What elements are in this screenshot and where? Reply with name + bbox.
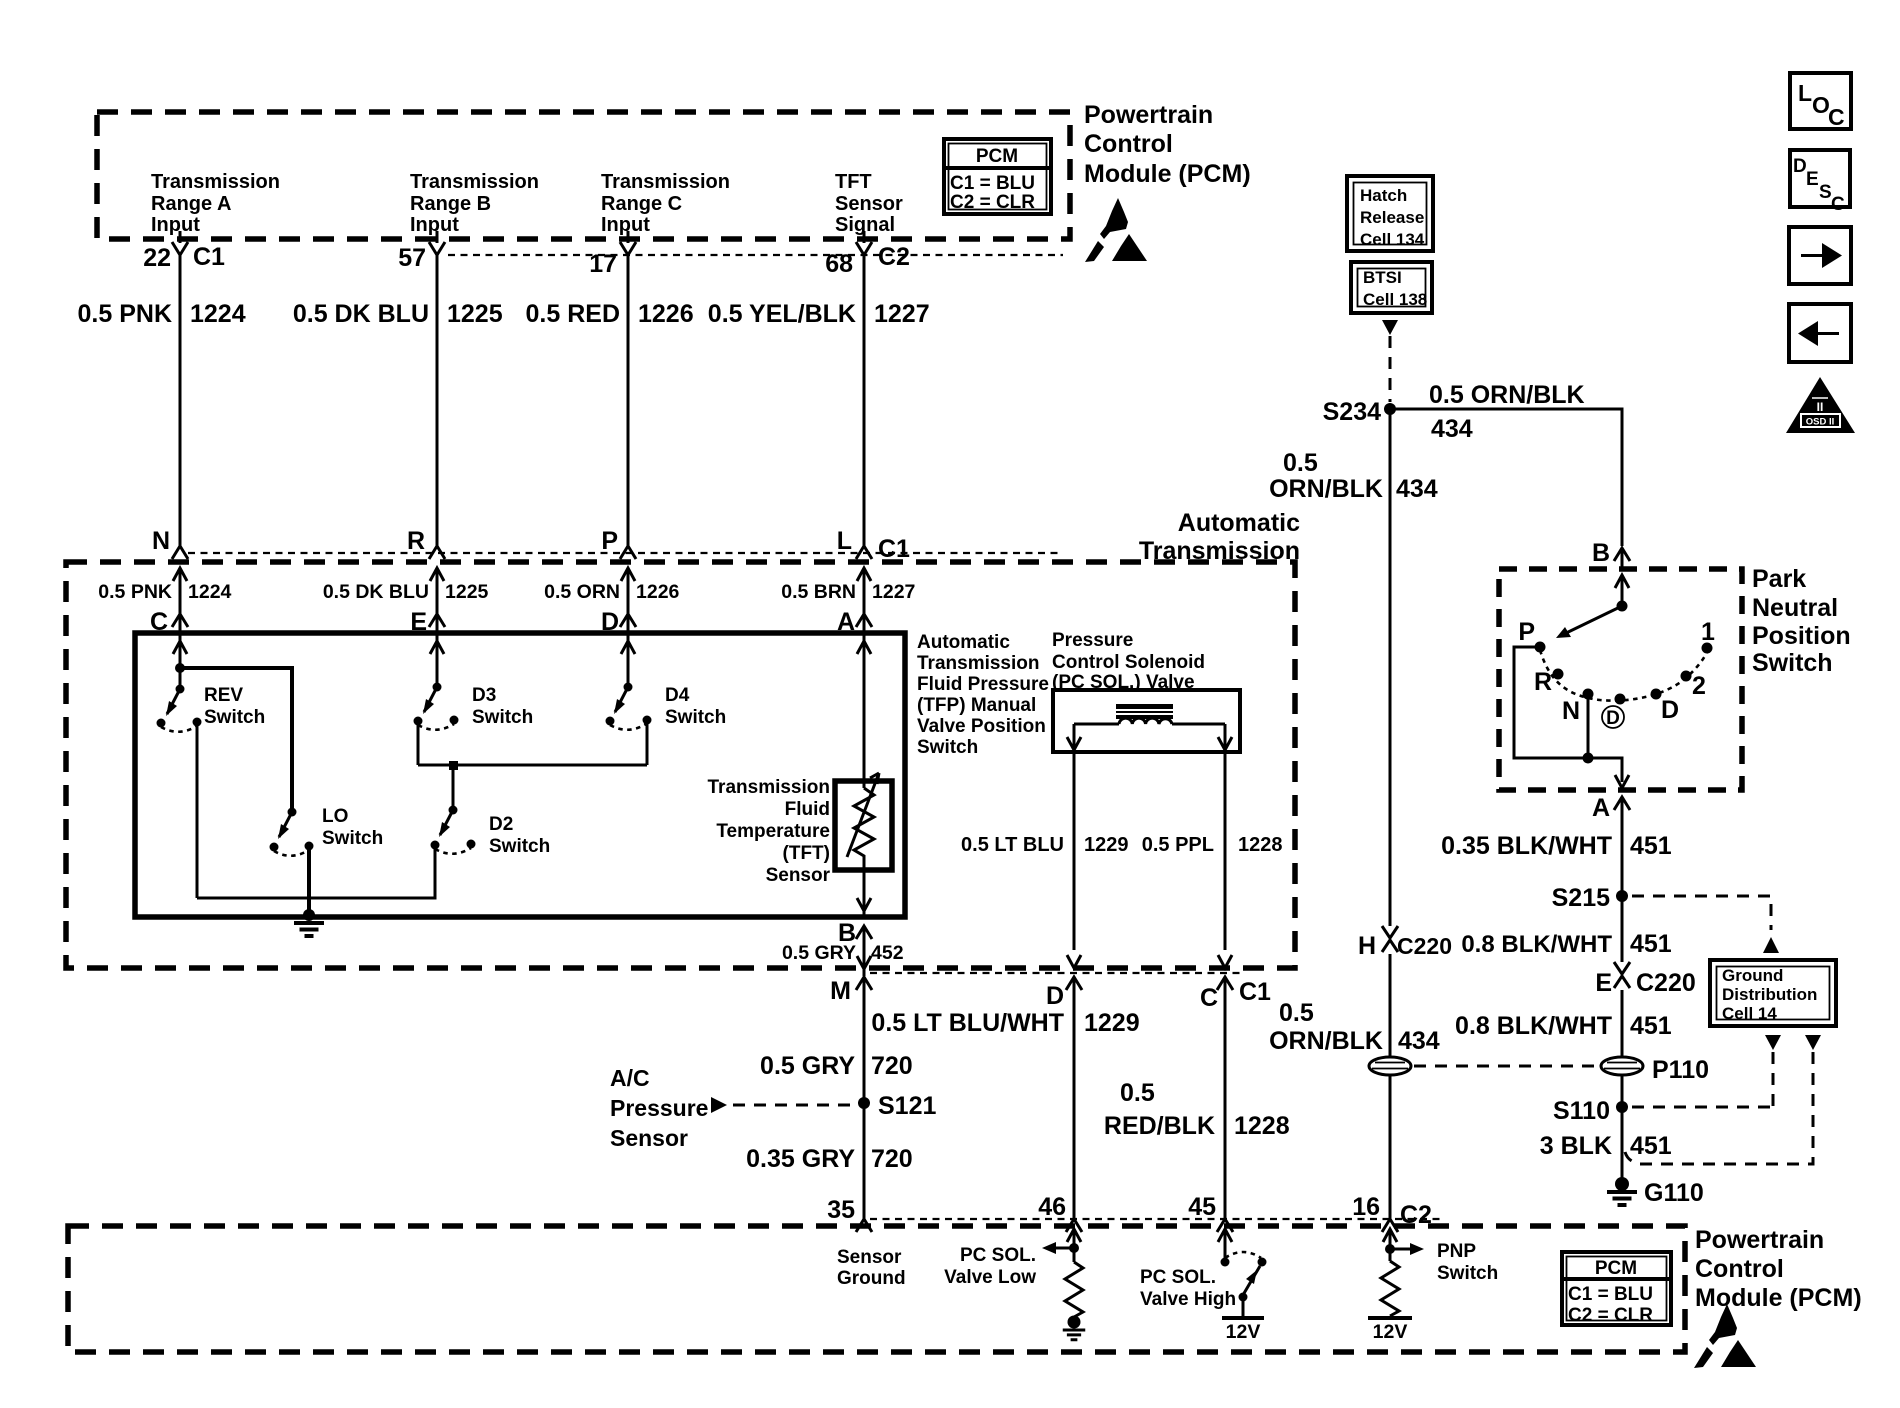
svg-text:451: 451 xyxy=(1630,1132,1672,1160)
svg-text:Module (PCM): Module (PCM) xyxy=(1084,160,1251,188)
svg-text:0.5 GRY: 0.5 GRY xyxy=(782,942,856,964)
wire M to pin 35 xyxy=(863,977,866,1219)
splice S215 xyxy=(1616,890,1628,902)
junction dot xyxy=(1069,1243,1079,1253)
PCM module box (bottom) xyxy=(68,1226,1685,1352)
svg-text:S121: S121 xyxy=(878,1092,936,1120)
ground symbol (valve low) xyxy=(1063,1330,1086,1340)
D3 switch xyxy=(414,683,459,730)
svg-text:46: 46 xyxy=(1038,1193,1066,1221)
svg-text:Input: Input xyxy=(601,214,650,236)
svg-text:Range B: Range B xyxy=(410,193,491,215)
rotor blade to P xyxy=(1560,606,1622,636)
PC SOL valve high driver: arrow up xyxy=(1218,1229,1232,1242)
svg-text:0.8 BLK/WHT: 0.8 BLK/WHT xyxy=(1461,931,1612,958)
wire PC SOL high to node C xyxy=(1224,752,1227,950)
arrow into box on wire C xyxy=(173,641,187,654)
junction node on wire C xyxy=(175,663,185,673)
dashed wire BTSI to S234 xyxy=(1389,336,1392,402)
arrow down on C wire xyxy=(1218,955,1232,968)
arrow down at transmission box exit xyxy=(857,956,871,969)
svg-text:LO: LO xyxy=(322,806,348,827)
svg-text:720: 720 xyxy=(871,1145,913,1173)
svg-text:434: 434 xyxy=(1398,1027,1440,1055)
switch blade to 12V xyxy=(1243,1266,1260,1295)
svg-text:D: D xyxy=(1661,696,1679,724)
svg-text:451: 451 xyxy=(1630,832,1672,860)
resistor (valve low driver) xyxy=(1065,1262,1083,1317)
splice S234 xyxy=(1384,403,1396,415)
svg-text:Switch: Switch xyxy=(917,737,978,758)
wire A to G110 xyxy=(1621,797,1624,1183)
LOC icon xyxy=(1790,73,1851,130)
svg-text:Valve Low: Valve Low xyxy=(944,1267,1036,1288)
svg-text:Sensor: Sensor xyxy=(610,1125,688,1151)
PCM connector table (bottom) xyxy=(1562,1252,1671,1326)
fine connector line bottom xyxy=(870,1218,1445,1220)
PNP switch sense: arrow up xyxy=(1383,1229,1397,1242)
svg-text:PCM: PCM xyxy=(976,146,1018,167)
PC SOL valve low driver: arrow up xyxy=(1067,1229,1081,1242)
svg-text:A/C: A/C xyxy=(610,1065,650,1091)
svg-text:17: 17 xyxy=(589,250,617,278)
svg-text:D: D xyxy=(1606,708,1620,729)
svg-text:(TFT): (TFT) xyxy=(783,843,830,864)
svg-text:PC SOL.: PC SOL. xyxy=(1140,1267,1216,1288)
svg-text:C1 = BLU: C1 = BLU xyxy=(950,173,1035,194)
wire A BRN inside transmission xyxy=(857,568,871,581)
A/C pressure sensor arrow xyxy=(711,1097,727,1113)
pin 68 connector fork xyxy=(863,231,866,243)
wire TFT sensor to node B xyxy=(863,870,866,917)
svg-text:Input: Input xyxy=(410,214,459,236)
svg-text:Cell 134: Cell 134 xyxy=(1360,230,1425,249)
dashed wire gnd dist to G110 leg xyxy=(1625,1052,1813,1164)
svg-text:3 BLK: 3 BLK xyxy=(1540,1132,1612,1160)
wire PC SOL low to node D xyxy=(1073,752,1076,950)
BTSI Cell 138 box xyxy=(1351,262,1432,313)
arrow down at switch exit xyxy=(1615,775,1629,788)
svg-text:PCM: PCM xyxy=(1595,1258,1637,1279)
dashed switch arc xyxy=(1225,1252,1261,1258)
svg-text:Neutral: Neutral xyxy=(1752,594,1838,622)
wire D3 contact down to link bus xyxy=(417,721,420,765)
svg-text:Valve High: Valve High xyxy=(1140,1289,1236,1310)
TFT sensor box xyxy=(835,781,892,870)
svg-text:BTSI: BTSI xyxy=(1363,268,1402,287)
svg-text:C2: C2 xyxy=(878,243,910,271)
ground bus wire xyxy=(197,850,435,898)
svg-text:E: E xyxy=(1806,169,1819,190)
svg-text:OSD II: OSD II xyxy=(1806,417,1835,428)
solenoid coil xyxy=(1074,718,1225,724)
svg-text:RED/BLK: RED/BLK xyxy=(1104,1112,1215,1140)
ground dot xyxy=(1068,1316,1081,1329)
wire B into switch xyxy=(1615,575,1629,588)
arrow down on D wire xyxy=(1067,955,1081,968)
svg-text:Ground: Ground xyxy=(1722,966,1783,985)
wire P contact to output A xyxy=(1514,647,1622,782)
svg-text:N: N xyxy=(152,527,170,555)
right arrow icon xyxy=(1789,227,1851,284)
svg-text:0.5 RED: 0.5 RED xyxy=(526,300,620,328)
svg-text:0.5: 0.5 xyxy=(1120,1079,1155,1107)
svg-text:Park: Park xyxy=(1752,565,1806,593)
svg-text:C: C xyxy=(1828,104,1845,130)
svg-text:S215: S215 xyxy=(1552,884,1610,912)
fine connector line xyxy=(870,972,1240,974)
wire 1227 YEL/BLK from pin 68 to L xyxy=(863,255,866,546)
dashed contact arc xyxy=(1540,650,1708,701)
Hatch Release Cell 134 box xyxy=(1347,176,1433,251)
wire D ORN inside transmission xyxy=(621,568,635,581)
wire C PNK inside transmission xyxy=(173,568,187,581)
wire REV contact to ground bus xyxy=(196,722,199,898)
svg-text:Distribution: Distribution xyxy=(1722,985,1817,1004)
svg-text:PC SOL.: PC SOL. xyxy=(960,1245,1036,1266)
D2 switch xyxy=(431,806,476,854)
svg-text:434: 434 xyxy=(1396,475,1438,503)
svg-text:22: 22 xyxy=(143,244,171,272)
svg-text:1224: 1224 xyxy=(190,300,246,328)
svg-text:Position: Position xyxy=(1752,622,1851,650)
svg-text:1226: 1226 xyxy=(636,581,680,603)
svg-text:Switch: Switch xyxy=(665,707,726,728)
wire S234 down to pin 16 xyxy=(1389,409,1392,1219)
svg-text:Switch: Switch xyxy=(1752,649,1833,677)
svg-text:1: 1 xyxy=(1701,618,1715,646)
ground junction dot xyxy=(303,909,315,921)
svg-text:0.5 PNK: 0.5 PNK xyxy=(78,300,172,328)
svg-text:0.5 ORN: 0.5 ORN xyxy=(544,581,620,603)
arrow into box on wire A xyxy=(857,641,871,654)
arrow into box on wire D xyxy=(621,641,635,654)
svg-text:Automatic: Automatic xyxy=(917,632,1010,653)
svg-text:Range A: Range A xyxy=(151,193,231,215)
wire D4 contact down to link bus xyxy=(646,720,649,765)
svg-text:Range C: Range C xyxy=(601,193,682,215)
svg-text:0.35 GRY: 0.35 GRY xyxy=(746,1145,855,1173)
svg-text:Fluid Pressure: Fluid Pressure xyxy=(917,674,1049,695)
pin 57 connector fork xyxy=(436,231,439,243)
PNP switch dashed box xyxy=(1499,569,1742,790)
wire 1224 PNK from pin 22 to N xyxy=(179,255,182,546)
splice S121 xyxy=(858,1097,870,1109)
svg-text:Automatic: Automatic xyxy=(1178,509,1300,537)
svg-text:PNP: PNP xyxy=(1437,1241,1476,1262)
svg-text:S: S xyxy=(1819,182,1832,203)
arrow into box on wire E xyxy=(430,641,444,654)
svg-text:451: 451 xyxy=(1630,930,1672,958)
svg-text:Powertrain: Powertrain xyxy=(1695,1226,1824,1254)
svg-text:0.5 DK BLU: 0.5 DK BLU xyxy=(323,581,429,603)
svg-text:TFT: TFT xyxy=(835,171,872,193)
svg-text:0.5 DK BLU: 0.5 DK BLU xyxy=(293,300,429,328)
arrow down at box bottom on TFT wire xyxy=(857,898,871,911)
svg-text:P: P xyxy=(1518,618,1535,646)
svg-text:16: 16 xyxy=(1352,1193,1380,1221)
svg-text:Hatch: Hatch xyxy=(1360,186,1407,205)
svg-text:Fluid: Fluid xyxy=(785,799,830,820)
svg-text:C1: C1 xyxy=(193,243,225,271)
svg-text:ORN/BLK: ORN/BLK xyxy=(1269,475,1383,503)
svg-text:35: 35 xyxy=(827,1196,855,1224)
svg-text:R: R xyxy=(407,527,425,555)
svg-text:Control: Control xyxy=(1695,1255,1784,1283)
svg-text:P110: P110 xyxy=(1652,1056,1709,1084)
automatic transmission box xyxy=(66,562,1295,968)
svg-text:1224: 1224 xyxy=(188,581,232,603)
svg-text:L: L xyxy=(837,527,852,555)
svg-text:Valve Position: Valve Position xyxy=(917,716,1046,737)
svg-text:1226: 1226 xyxy=(638,300,694,328)
svg-text:Transmission: Transmission xyxy=(708,777,831,798)
svg-text:12V: 12V xyxy=(1373,1321,1408,1343)
svg-text:C2: C2 xyxy=(1400,1201,1432,1229)
svg-text:S110: S110 xyxy=(1553,1097,1610,1125)
wire S234 to B (horizontal) xyxy=(1390,409,1622,546)
svg-text:Sensor: Sensor xyxy=(835,193,903,215)
pin 22 connector fork xyxy=(179,231,182,243)
svg-text:C: C xyxy=(1831,194,1845,215)
12V supply (PNP) xyxy=(1368,1316,1412,1320)
svg-text:Switch: Switch xyxy=(1437,1263,1498,1284)
svg-text:D3: D3 xyxy=(472,685,496,706)
svg-text:Transmission: Transmission xyxy=(410,171,539,193)
contact D drive (circled) xyxy=(1615,694,1626,705)
arrow from BTSI (filled) xyxy=(1382,320,1398,335)
junction to D2 xyxy=(449,761,458,770)
svg-text:Control: Control xyxy=(1084,130,1173,158)
arrow to ground distribution (filled) xyxy=(1763,937,1779,953)
svg-text:Module (PCM): Module (PCM) xyxy=(1695,1284,1862,1312)
dashed wire S110 to gnd dist xyxy=(1632,1106,1771,1109)
svg-text:Switch: Switch xyxy=(322,828,383,849)
svg-text:Sensor: Sensor xyxy=(766,865,831,886)
svg-text:Release: Release xyxy=(1360,208,1424,227)
svg-text:S234: S234 xyxy=(1323,398,1381,426)
ESD symbol top xyxy=(1085,198,1147,262)
wire 1225 DK BLU from pin 57 to R xyxy=(436,255,439,546)
right arrow to PNP Switch xyxy=(1390,1248,1410,1251)
svg-text:0.5 ORN/BLK: 0.5 ORN/BLK xyxy=(1429,381,1585,409)
svg-text:452: 452 xyxy=(871,942,904,964)
ESD symbol bottom xyxy=(1694,1304,1756,1368)
ground G110 xyxy=(1615,1177,1629,1191)
svg-text:0.5: 0.5 xyxy=(1283,449,1318,477)
svg-text:N: N xyxy=(1562,697,1580,725)
TFT sensor arrow xyxy=(847,773,879,857)
wire LO contact to ground at box bottom xyxy=(307,846,311,917)
svg-text:Powertrain: Powertrain xyxy=(1084,101,1213,129)
svg-text:D4: D4 xyxy=(665,685,690,706)
svg-text:1228: 1228 xyxy=(1238,834,1283,856)
svg-text:C2 = CLR: C2 = CLR xyxy=(1568,1305,1653,1326)
svg-text:1225: 1225 xyxy=(445,581,489,603)
wire 1226 RED from pin 17 to P xyxy=(627,255,630,546)
svg-text:Switch: Switch xyxy=(489,836,550,857)
svg-text:Temperature: Temperature xyxy=(716,821,830,842)
wire E DK BLU inside transmission xyxy=(430,568,444,581)
svg-text:Transmission: Transmission xyxy=(151,171,280,193)
svg-text:720: 720 xyxy=(871,1052,913,1080)
TFT sensor resistor element xyxy=(854,781,874,870)
svg-text:Pressure: Pressure xyxy=(610,1095,708,1121)
link bus D3/D2/D4 xyxy=(418,764,647,767)
left arrow icon xyxy=(1789,304,1851,362)
svg-text:C220: C220 xyxy=(1636,969,1696,997)
svg-text:L: L xyxy=(1798,80,1812,106)
svg-text:II: II xyxy=(1817,400,1824,414)
REV switch xyxy=(157,685,202,732)
svg-text:Ground: Ground xyxy=(837,1268,906,1289)
svg-text:57: 57 xyxy=(398,244,426,272)
svg-text:0.5 PPL: 0.5 PPL xyxy=(1142,834,1214,856)
wire C to pin 45 xyxy=(1224,977,1227,1219)
svg-text:Cell 14: Cell 14 xyxy=(1722,1004,1777,1023)
left arrow to PC SOL Valve Low xyxy=(1056,1247,1074,1250)
svg-text:0.5 PNK: 0.5 PNK xyxy=(98,581,172,603)
svg-text:REV: REV xyxy=(204,685,243,706)
svg-text:1229: 1229 xyxy=(1084,834,1129,856)
wire D2 contact to ground bus xyxy=(434,845,437,898)
fine connector line C1 top xyxy=(448,254,1063,256)
svg-text:G110: G110 xyxy=(1644,1179,1704,1207)
svg-text:Switch: Switch xyxy=(472,707,533,728)
svg-text:12V: 12V xyxy=(1226,1321,1261,1343)
PCM connector table (top) xyxy=(944,139,1051,214)
svg-text:1228: 1228 xyxy=(1234,1112,1290,1140)
svg-text:1229: 1229 xyxy=(1084,1009,1140,1037)
PCM module box (top) xyxy=(97,112,1070,239)
svg-text:0.5 YEL/BLK: 0.5 YEL/BLK xyxy=(708,300,856,328)
svg-text:ORN/BLK: ORN/BLK xyxy=(1269,1027,1383,1055)
svg-text:2: 2 xyxy=(1692,672,1706,700)
svg-text:0.5 LT BLU/WHT: 0.5 LT BLU/WHT xyxy=(871,1009,1064,1037)
svg-text:R: R xyxy=(1534,668,1552,696)
dashed wire gnd dist to S110 xyxy=(1772,1052,1775,1106)
switch contact dot xyxy=(1221,1258,1230,1267)
svg-text:45: 45 xyxy=(1188,1193,1216,1221)
wire link bus to D2 pivot xyxy=(452,765,455,810)
rotor pivot dot xyxy=(1617,601,1628,612)
dashed wire S215 to ground distribution xyxy=(1632,896,1771,930)
TFP manual valve position switch box xyxy=(135,633,905,917)
svg-text:0.5 BRN: 0.5 BRN xyxy=(781,581,856,603)
svg-text:D: D xyxy=(1793,156,1807,177)
svg-text:B: B xyxy=(1592,539,1610,567)
svg-text:Control Solenoid: Control Solenoid xyxy=(1052,652,1205,673)
svg-text:M: M xyxy=(830,977,851,1005)
svg-text:451: 451 xyxy=(1630,1012,1672,1040)
svg-text:(TFP) Manual: (TFP) Manual xyxy=(917,695,1036,716)
ground symbol (TFP switch) xyxy=(294,923,324,936)
wire from C junction to LO switch branch xyxy=(180,668,292,812)
wire B to M xyxy=(863,926,866,976)
dashed link between grommets xyxy=(1414,1065,1598,1068)
svg-text:P: P xyxy=(601,527,618,555)
LO switch xyxy=(270,808,314,856)
svg-text:1227: 1227 xyxy=(872,581,915,603)
OSD II icon xyxy=(1786,377,1855,433)
svg-text:Sensor: Sensor xyxy=(837,1247,902,1268)
svg-text:0.35 BLK/WHT: 0.35 BLK/WHT xyxy=(1441,832,1612,860)
dashed wire A/C sensor to S121 xyxy=(733,1104,852,1107)
DESC icon xyxy=(1790,150,1850,215)
D4 switch xyxy=(606,683,652,730)
svg-text:0.8 BLK/WHT: 0.8 BLK/WHT xyxy=(1455,1012,1612,1040)
svg-text:D: D xyxy=(1046,982,1064,1010)
svg-text:1225: 1225 xyxy=(447,300,503,328)
splice S110 xyxy=(1616,1101,1628,1113)
arrows from ground distribution (filled) xyxy=(1765,1035,1781,1050)
svg-text:A: A xyxy=(1592,794,1610,822)
svg-text:Input: Input xyxy=(151,214,200,236)
pin 17 connector fork xyxy=(627,231,630,243)
wire N contact down xyxy=(1587,694,1590,758)
svg-text:0.5 GRY: 0.5 GRY xyxy=(760,1052,855,1080)
svg-text:H: H xyxy=(1358,932,1376,960)
svg-text:0.5: 0.5 xyxy=(1279,999,1314,1027)
svg-text:Switch: Switch xyxy=(204,707,265,728)
svg-text:C220: C220 xyxy=(1397,933,1452,959)
switch contact dot right xyxy=(1258,1258,1267,1267)
svg-text:Transmission: Transmission xyxy=(917,653,1040,674)
inline grommet on ORN/BLK wire xyxy=(1369,1057,1411,1075)
12V supply (valve high) xyxy=(1222,1316,1264,1320)
svg-text:0.5 LT BLU: 0.5 LT BLU xyxy=(961,834,1064,856)
svg-text:D2: D2 xyxy=(489,814,513,835)
svg-text:C2 = CLR: C2 = CLR xyxy=(950,192,1035,213)
svg-text:434: 434 xyxy=(1431,415,1473,443)
svg-text:C1 = BLU: C1 = BLU xyxy=(1568,1284,1653,1305)
solenoid core bars xyxy=(1116,704,1173,709)
svg-text:68: 68 xyxy=(825,250,853,278)
svg-text:1227: 1227 xyxy=(874,300,930,328)
PC SOL valve box xyxy=(1053,690,1240,752)
resistor (PNP pull-up) xyxy=(1381,1261,1399,1316)
inline grommet P110 on main ground wire xyxy=(1601,1057,1643,1075)
solenoid lead arrows xyxy=(1074,724,1225,750)
svg-text:Pressure: Pressure xyxy=(1052,630,1133,651)
svg-text:C: C xyxy=(1200,984,1218,1012)
svg-text:C1: C1 xyxy=(1239,978,1271,1006)
svg-text:Transmission: Transmission xyxy=(601,171,730,193)
svg-text:Cell 138: Cell 138 xyxy=(1363,290,1427,309)
wire D to pin 46 xyxy=(1073,977,1076,1219)
Ground Distribution Cell 14 box xyxy=(1710,960,1836,1026)
fine connector line xyxy=(188,552,1063,554)
svg-text:C1: C1 xyxy=(878,535,910,563)
junction dot xyxy=(1385,1244,1395,1254)
svg-text:E: E xyxy=(1595,969,1612,997)
